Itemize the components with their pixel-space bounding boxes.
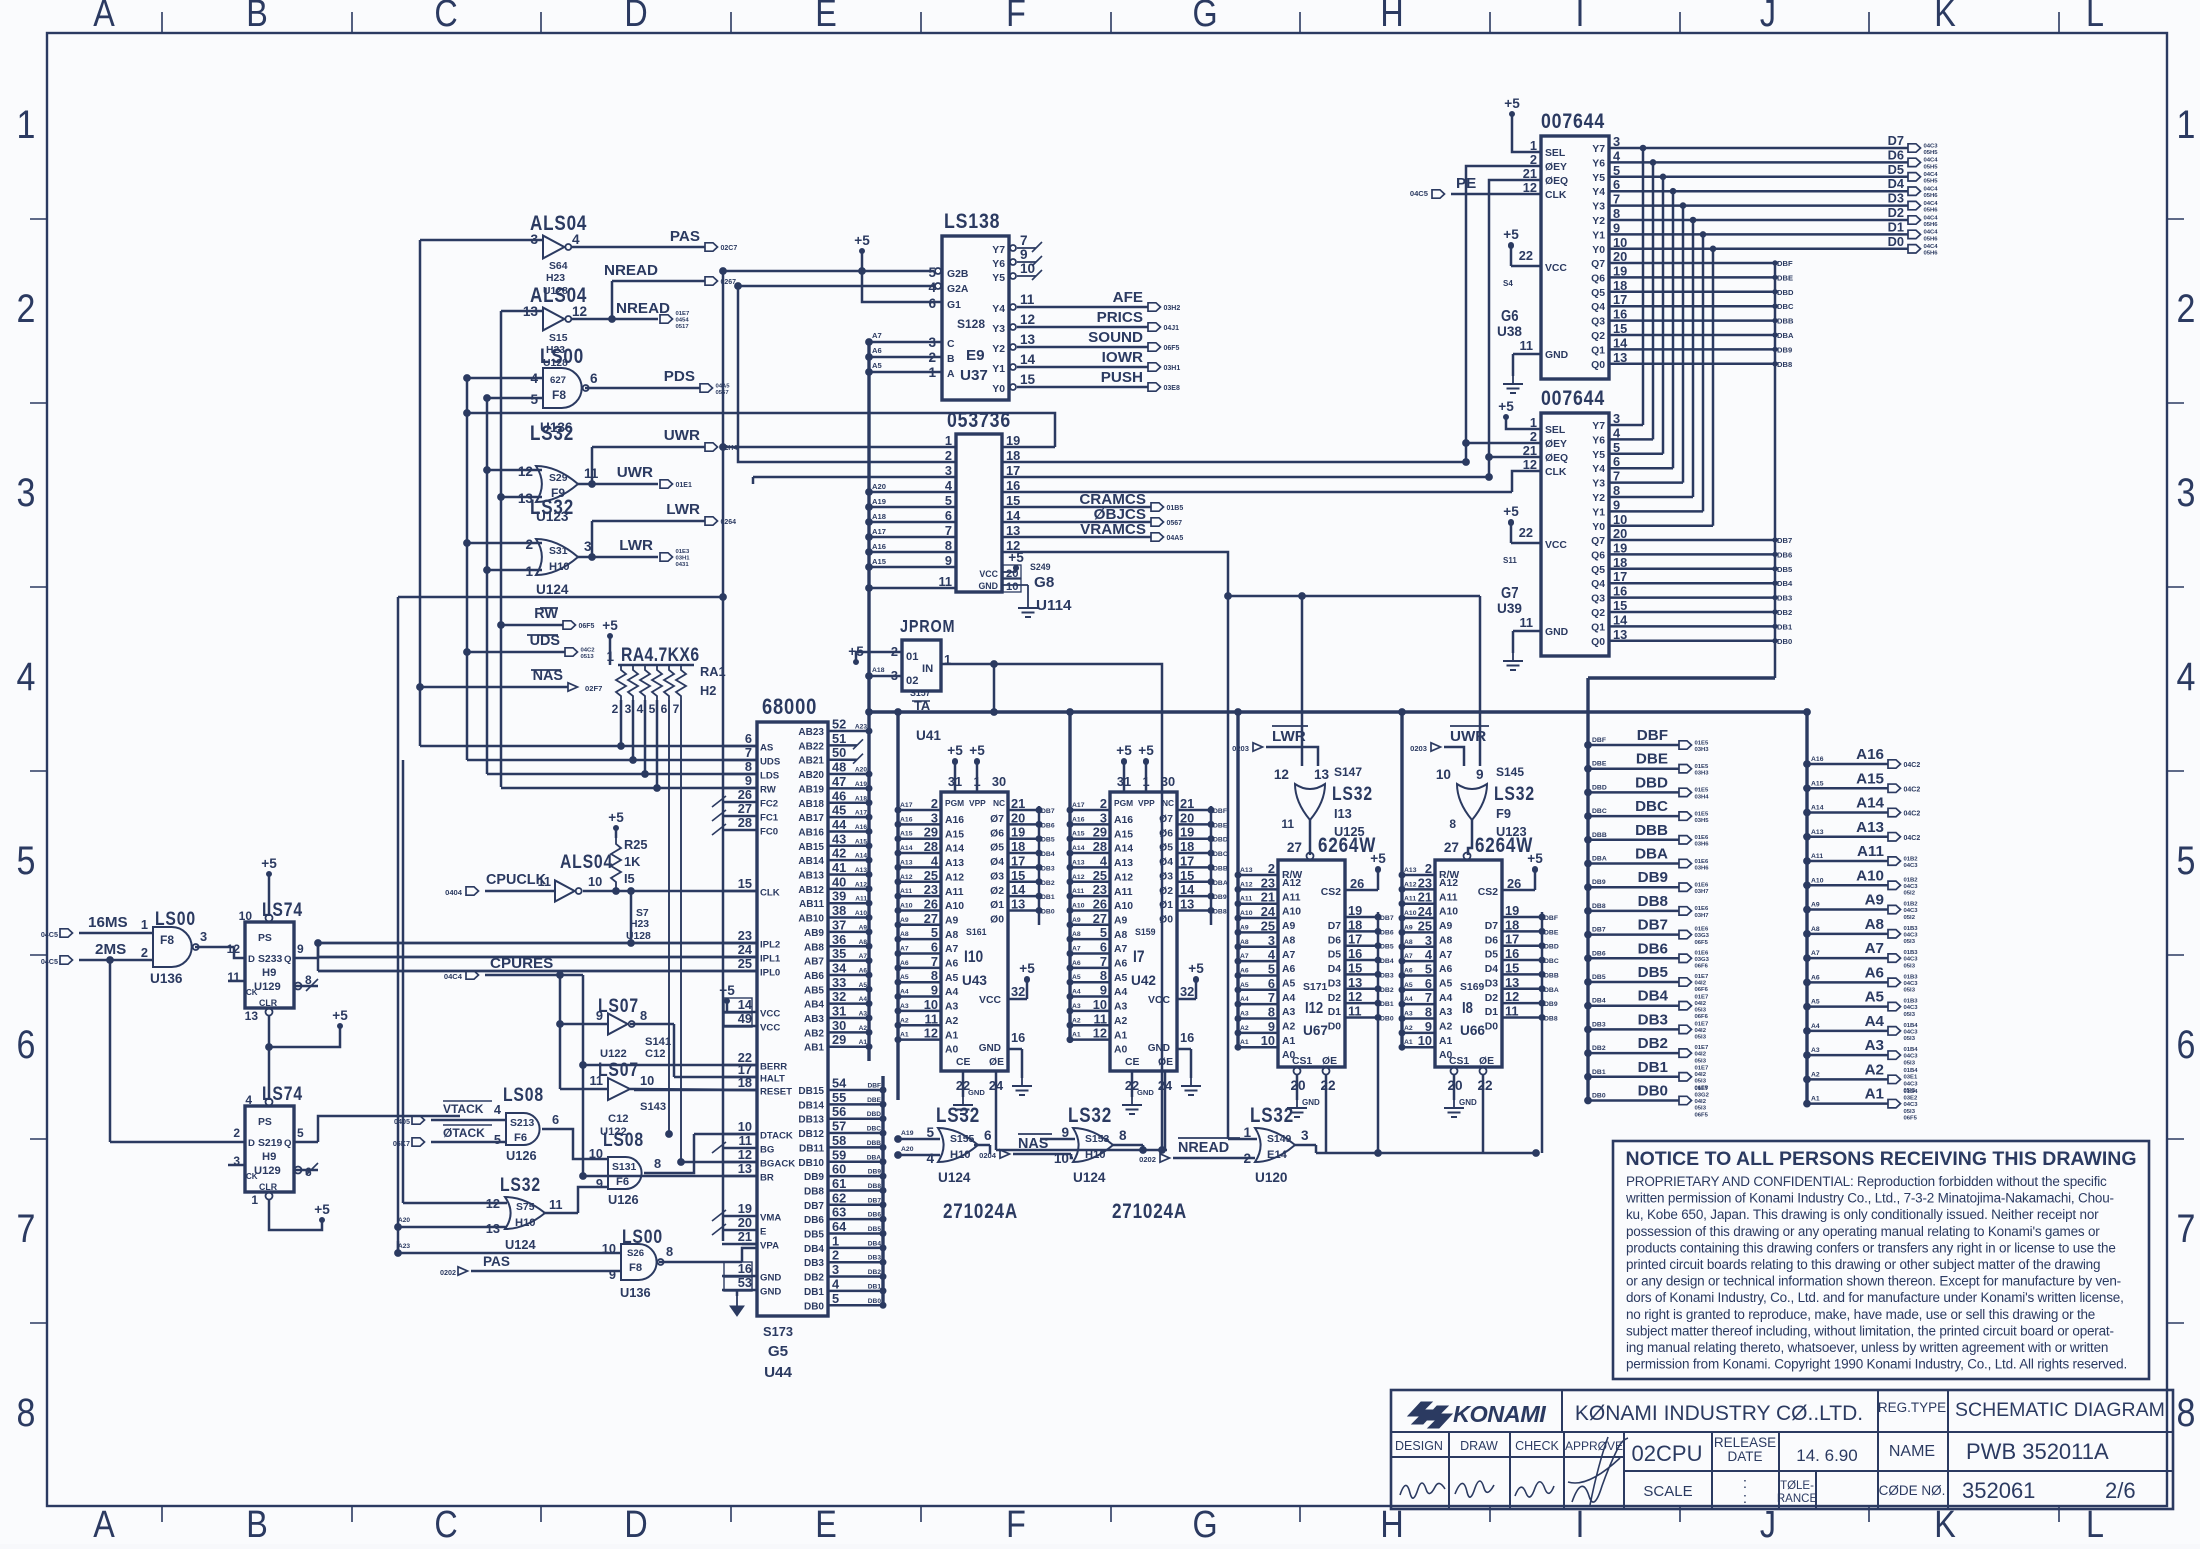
svg-text:23: 23 — [924, 882, 938, 897]
svg-text:H2: H2 — [700, 683, 716, 698]
svg-text:+5: +5 — [947, 743, 963, 758]
svg-text:9: 9 — [1425, 1019, 1432, 1034]
svg-text:04C4: 04C4 — [1924, 158, 1939, 164]
svg-text:CØDE NØ.: CØDE NØ. — [1879, 1483, 1946, 1498]
svg-text:04C2: 04C2 — [1904, 811, 1921, 818]
labels G2B G2A G1 — [947, 269, 969, 311]
label S143 — [640, 1101, 666, 1113]
svg-text:VPP: VPP — [969, 798, 986, 808]
svg-text:A10: A10 — [900, 902, 913, 909]
label CPUCLK — [486, 872, 547, 888]
svg-text:A10: A10 — [1439, 907, 1458, 918]
label VTACK — [443, 1101, 492, 1116]
svg-text:Q3: Q3 — [1591, 317, 1605, 328]
svg-text:A6: A6 — [945, 959, 959, 970]
svg-text:20: 20 — [738, 1215, 752, 1230]
svg-text:8: 8 — [654, 1156, 661, 1171]
svg-text:06F5: 06F5 — [579, 623, 595, 630]
svg-text:DB4: DB4 — [868, 1240, 882, 1247]
flag A2 — [1888, 1068, 1918, 1094]
label A9 — [1865, 892, 1884, 909]
notice body text — [1625, 1174, 2127, 1372]
svg-text:A9: A9 — [1439, 921, 1453, 932]
pins 10/9/8 — [589, 1146, 661, 1191]
ram I12 data trunk — [1377, 912, 1380, 1153]
svg-text:7: 7 — [1425, 990, 1432, 1005]
wire S153 pin9 — [1040, 1138, 1075, 1141]
svg-text:64: 64 — [832, 1219, 847, 1234]
svg-text:Y1: Y1 — [1592, 507, 1605, 518]
svg-text:5: 5 — [649, 702, 656, 716]
wire trunk x420 — [419, 240, 422, 746]
svg-text:A11: A11 — [1114, 887, 1133, 898]
svg-text:GND: GND — [978, 581, 998, 591]
wire x318 seg — [317, 943, 320, 971]
svg-text:D2: D2 — [1485, 993, 1499, 1004]
svg-text:PRICS: PRICS — [1097, 309, 1143, 326]
svg-text:01B5: 01B5 — [1167, 505, 1184, 512]
svg-text:S145: S145 — [1496, 765, 1524, 779]
+5 U43 VPP — [969, 743, 985, 764]
svg-text:5: 5 — [530, 392, 538, 407]
svg-text:A7: A7 — [1114, 944, 1128, 955]
svg-text:RESET: RESET — [760, 1087, 792, 1098]
wire ALS04 S15 input — [501, 310, 543, 313]
svg-text:A12: A12 — [855, 881, 867, 888]
svg-text:S249: S249 — [1030, 562, 1051, 572]
wire trunk x738 to 053736 pin2 — [738, 286, 956, 462]
wire pullup BGACK — [680, 700, 682, 1162]
wire trunk x110 — [109, 960, 112, 1142]
svg-text:F: F — [1006, 0, 1026, 35]
svg-text:Ø2: Ø2 — [990, 886, 1004, 897]
wire OEY riser x1466 — [1466, 166, 1541, 462]
svg-text:05K7: 05K7 — [393, 1139, 410, 1148]
or LS32 S29 shape — [536, 466, 578, 502]
svg-text:01B4: 01B4 — [1904, 1047, 1919, 1053]
flag PE 04C5 — [1410, 189, 1445, 198]
buffer LS07 S143 U122 C12 — [598, 1059, 639, 1081]
label PAS — [670, 228, 700, 245]
flag DB8 — [1679, 906, 1709, 919]
svg-text:3: 3 — [1100, 810, 1107, 825]
svg-text:B: B — [947, 354, 955, 365]
68000 left control pins — [420, 731, 781, 899]
svg-text:6264W: 6264W — [1475, 835, 1533, 858]
svg-text:60: 60 — [832, 1162, 846, 1177]
or LS32 S149 shape — [1255, 1128, 1295, 1162]
svg-text:DB5: DB5 — [804, 1230, 824, 1241]
svg-text:U129: U129 — [254, 981, 281, 993]
and gate LS08 S131 F6 U126 — [603, 1129, 644, 1151]
svg-text:28: 28 — [1093, 839, 1107, 854]
svg-text:7: 7 — [745, 745, 752, 760]
svg-text:I: I — [1576, 0, 1585, 35]
svg-text:IN: IN — [922, 663, 933, 675]
svg-text:LS07: LS07 — [598, 1059, 639, 1081]
svg-text:IPL1: IPL1 — [760, 954, 781, 965]
svg-text:A19: A19 — [872, 497, 886, 506]
svg-text:Ø7: Ø7 — [990, 814, 1004, 825]
svg-text:NC: NC — [1162, 798, 1174, 808]
svg-text:DBF: DBF — [1213, 808, 1227, 815]
tag A15 — [1811, 780, 1824, 787]
svg-text:04C4: 04C4 — [1924, 187, 1939, 193]
svg-text:27: 27 — [1444, 840, 1459, 855]
svg-text:DB8: DB8 — [1638, 893, 1668, 910]
wire G1 from +5 — [862, 253, 942, 302]
svg-text:01E7: 01E7 — [1695, 974, 1709, 980]
label D7 — [1888, 133, 1904, 148]
svg-text:1: 1 — [17, 101, 36, 146]
svg-text:A5: A5 — [1811, 999, 1820, 1006]
+5 RA1 — [602, 618, 618, 639]
svg-text:+5: +5 — [261, 856, 277, 871]
svg-text:A: A — [93, 1504, 115, 1544]
svg-text:A10: A10 — [1856, 867, 1884, 884]
svg-text:38: 38 — [832, 903, 846, 918]
svg-text:S169: S169 — [1460, 982, 1484, 993]
flag NREAD 01E7 — [660, 311, 690, 330]
wire NREAD upper — [612, 280, 705, 283]
svg-text:DB9: DB9 — [1638, 869, 1668, 886]
svg-text:DB14: DB14 — [798, 1100, 824, 1111]
label DBB — [1635, 822, 1668, 839]
wire pullup RW — [656, 700, 659, 788]
svg-text:SEL: SEL — [1545, 425, 1566, 436]
svg-text:Ø3: Ø3 — [990, 871, 1004, 882]
svg-text:L: L — [2086, 0, 2104, 35]
eprom I10 CE OE pins — [956, 1057, 1004, 1150]
svg-text:Y5: Y5 — [1592, 450, 1605, 461]
+5 U66 CS2 — [1527, 851, 1543, 872]
flag A7 — [1888, 950, 1918, 969]
label PWB 352011A — [1966, 1439, 2109, 1464]
svg-text:G8: G8 — [1034, 574, 1054, 591]
svg-text:A4: A4 — [945, 987, 959, 998]
svg-text:A13: A13 — [855, 867, 867, 874]
svg-text:57: 57 — [832, 1119, 846, 1134]
label DBD — [1635, 774, 1668, 791]
053736 right pin numbers — [1006, 433, 1021, 553]
wires Q7-Q0 G7 — [1609, 536, 1793, 646]
svg-text:01B3: 01B3 — [1904, 974, 1919, 980]
svg-text:A2: A2 — [900, 1017, 909, 1024]
wire CK stub — [228, 980, 245, 983]
68000 BERR HALT RESET — [583, 1050, 792, 1098]
svg-text:DBD: DBD — [867, 1111, 882, 1118]
svg-text:DESIGN: DESIGN — [1395, 1439, 1443, 1453]
svg-text:02CPU: 02CPU — [1632, 1441, 1703, 1466]
svg-text:32: 32 — [832, 989, 846, 1004]
eprom I10 VCC GND — [979, 978, 1030, 1079]
svg-text:04A5: 04A5 — [1167, 535, 1184, 542]
svg-text:8: 8 — [931, 968, 938, 983]
svg-text:VRAMCS: VRAMCS — [1080, 521, 1146, 538]
svg-text:04C5: 04C5 — [41, 957, 58, 966]
wire LS138 B from A6 — [869, 356, 942, 359]
label U66 — [1460, 1023, 1485, 1038]
label F9 — [1496, 806, 1511, 821]
svg-text:04C3: 04C3 — [1904, 981, 1919, 987]
svg-text:AB1: AB1 — [804, 1043, 824, 1054]
svg-text:A1: A1 — [945, 1030, 959, 1041]
svg-text:Ø5: Ø5 — [1159, 843, 1173, 854]
label CLR — [259, 1182, 278, 1192]
svg-text:03H4: 03H4 — [1695, 794, 1710, 800]
flag DB0 — [1679, 1086, 1710, 1118]
svg-text:01B2: 01B2 — [1904, 856, 1919, 862]
svg-text:E: E — [815, 1504, 837, 1544]
label S149 E14 — [1267, 1134, 1291, 1161]
wire DBC — [1588, 815, 1679, 818]
label S131 F6 — [612, 1162, 636, 1188]
wire 2MS — [79, 959, 153, 962]
svg-text:Q: Q — [284, 954, 292, 965]
svg-text:Y4: Y4 — [1592, 187, 1605, 198]
wire DB2 — [1588, 1052, 1679, 1055]
svg-text:A14: A14 — [1114, 844, 1133, 855]
svg-text:+5: +5 — [854, 233, 870, 248]
svg-text:D0: D0 — [1328, 1021, 1342, 1032]
svg-text:A2: A2 — [1282, 1022, 1296, 1033]
eprom I7 address ladder — [1067, 796, 1133, 1056]
svg-text:ØEY: ØEY — [1545, 162, 1567, 173]
jumper JPROM S157 U41 — [902, 640, 941, 691]
svg-text:A9: A9 — [1282, 921, 1296, 932]
label U43 — [962, 973, 987, 988]
label U129 — [254, 1165, 281, 1177]
svg-text:01B3: 01B3 — [1904, 950, 1919, 956]
tag A13 — [1811, 829, 1824, 836]
svg-text:1K: 1K — [624, 854, 641, 869]
or S147 shape — [1295, 784, 1325, 820]
svg-text:A7: A7 — [1072, 946, 1081, 953]
label U38 — [1497, 324, 1522, 339]
wire jog — [1315, 1145, 1318, 1153]
label date — [1796, 1446, 1857, 1465]
svg-text:06F5: 06F5 — [1695, 1112, 1709, 1118]
svg-text:2: 2 — [233, 1126, 240, 1140]
label CRAMCS — [1079, 491, 1146, 508]
svg-text:Y2: Y2 — [1592, 216, 1605, 227]
svg-text:52: 52 — [832, 717, 846, 732]
svg-text:DB5: DB5 — [868, 1226, 882, 1233]
wire S31 pin1 — [487, 569, 542, 572]
svg-text:DBA: DBA — [1777, 331, 1794, 340]
label S153 H10 — [1085, 1134, 1109, 1161]
svg-text:04C3: 04C3 — [1904, 908, 1919, 914]
svg-text:ku, Kobe 650, Japan. This draw: ku, Kobe 650, Japan. This drawing is onl… — [1626, 1207, 2099, 1222]
inverter ALS04 S15 triangle — [543, 308, 571, 331]
wire LS138 A from A5 — [869, 371, 942, 374]
svg-text:A0: A0 — [945, 1045, 959, 1056]
svg-text:A3: A3 — [1282, 1007, 1296, 1018]
ram I12 CS1 OE pins — [1290, 1056, 1337, 1153]
svg-text:4: 4 — [637, 702, 644, 716]
svg-text:LS00: LS00 — [540, 346, 584, 369]
wire OEQ riser x1489 — [1489, 180, 1541, 477]
svg-text:05I2: 05I2 — [1904, 891, 1916, 897]
svg-text:PAS: PAS — [670, 228, 700, 245]
svg-text:04J1: 04J1 — [1164, 325, 1180, 332]
wires Q7-Q0 G6 — [1609, 259, 1794, 369]
svg-text:A8: A8 — [1811, 926, 1820, 933]
svg-text:VCC: VCC — [1148, 995, 1170, 1006]
svg-text:4: 4 — [926, 1151, 934, 1166]
svg-text:11: 11 — [1020, 292, 1035, 307]
svg-text:A11: A11 — [1282, 892, 1301, 903]
svg-text:A7: A7 — [872, 331, 882, 340]
tag DB5 — [1592, 974, 1606, 981]
flag VRAMCS 04A5 — [1151, 533, 1183, 542]
wire NREAD to S149 — [1173, 1157, 1255, 1160]
svg-text:AB11: AB11 — [799, 899, 824, 910]
tag DBF — [1592, 737, 1606, 744]
svg-text:DB2: DB2 — [868, 1269, 882, 1276]
svg-text:E: E — [760, 1227, 767, 1238]
svg-text:A15: A15 — [872, 557, 887, 566]
svg-text:Q7: Q7 — [1591, 259, 1605, 270]
svg-text:DBC: DBC — [1592, 808, 1607, 815]
svg-text:AS: AS — [760, 743, 774, 754]
ram I12 — [1278, 860, 1345, 1067]
wire A14 — [1807, 811, 1888, 814]
wires Y bus verticals G6-G7 — [1609, 145, 1716, 526]
label 007644 G7 — [1541, 386, 1605, 410]
svg-text:053736: 053736 — [947, 408, 1011, 432]
svg-text:G: G — [1192, 1504, 1217, 1544]
wire S75 pin13 — [398, 1226, 507, 1229]
053736 left A-bus wires — [866, 482, 956, 591]
svg-text:2: 2 — [612, 702, 619, 716]
wire trunk x723 upper — [722, 271, 725, 597]
svg-text:DB7: DB7 — [804, 1201, 824, 1212]
svg-text:ØEY: ØEY — [1545, 439, 1567, 450]
svg-text:A15: A15 — [855, 838, 867, 845]
label UDS overline — [527, 633, 560, 649]
svg-text:SEL: SEL — [1545, 148, 1566, 159]
svg-text:S219: S219 — [258, 1138, 282, 1149]
svg-text:LS32: LS32 — [1332, 783, 1373, 805]
svg-text:DB15: DB15 — [798, 1086, 824, 1097]
svg-text:Y6: Y6 — [992, 259, 1005, 270]
flag DB7 — [1679, 927, 1710, 946]
svg-text:DB3: DB3 — [1380, 972, 1394, 979]
svg-text:A10: A10 — [945, 901, 964, 912]
label LWR upper — [666, 501, 700, 518]
svg-text:A2: A2 — [1114, 1016, 1128, 1027]
svg-text:A6: A6 — [1240, 967, 1249, 974]
svg-text:Y1: Y1 — [992, 364, 1005, 375]
pin 11 — [1281, 817, 1294, 831]
svg-text:7: 7 — [1100, 954, 1107, 969]
svg-text:12: 12 — [924, 1026, 938, 1041]
svg-text:DTACK: DTACK — [760, 1131, 793, 1142]
inverter ALS04 S7 U128 CPUCLK — [560, 851, 613, 873]
svg-text:05H5: 05H5 — [1924, 150, 1939, 156]
svg-text:5: 5 — [1268, 961, 1275, 976]
svg-text:DB10: DB10 — [798, 1158, 824, 1169]
label DB7 — [1638, 917, 1668, 934]
resistor elements RA1 — [612, 664, 726, 716]
+5 053736 VCC — [1008, 550, 1024, 571]
svg-text:12: 12 — [227, 942, 241, 956]
svg-text:0567: 0567 — [1167, 520, 1183, 527]
svg-text:04I2: 04I2 — [1695, 1099, 1707, 1105]
svg-text:62: 62 — [832, 1190, 846, 1205]
flag D0 — [1908, 244, 1938, 257]
svg-text:03G3: 03G3 — [1695, 933, 1710, 939]
wire S29 pin13 — [501, 496, 542, 499]
svg-text:D6: D6 — [1328, 935, 1342, 946]
svg-text:G7: G7 — [1501, 585, 1519, 602]
svg-text:49: 49 — [738, 1011, 752, 1026]
ground U67 CS1 — [1287, 1100, 1307, 1117]
label S249 — [1030, 562, 1051, 572]
svg-text:U124: U124 — [505, 1237, 536, 1252]
label CLR — [259, 998, 278, 1008]
+5 U42 PGM — [1116, 743, 1132, 764]
svg-text:A12: A12 — [900, 874, 913, 881]
label 02CPU — [1632, 1441, 1703, 1466]
svg-text:A20: A20 — [855, 767, 867, 774]
svg-text:8: 8 — [1449, 817, 1456, 831]
svg-text:10: 10 — [588, 874, 602, 889]
svg-text:2: 2 — [141, 945, 148, 960]
svg-text:A1: A1 — [1114, 1030, 1128, 1041]
flag DBE — [1679, 764, 1709, 777]
svg-text:10: 10 — [1020, 261, 1035, 276]
wire IOWR — [1017, 366, 1148, 369]
label DB8 — [1638, 893, 1668, 910]
label DB9 — [1638, 869, 1668, 886]
svg-text:G: G — [1192, 0, 1217, 35]
svg-text:D4: D4 — [1328, 964, 1342, 975]
label 007644 G6 — [1541, 109, 1605, 133]
svg-text:0204: 0204 — [979, 1151, 997, 1160]
or LS32 S153 shape — [1073, 1128, 1113, 1162]
svg-text:RA1: RA1 — [700, 664, 726, 679]
svg-text:05I3: 05I3 — [1695, 1106, 1707, 1112]
wire UWR lower — [592, 483, 658, 486]
svg-text:AB12: AB12 — [798, 885, 824, 896]
svg-text:A16: A16 — [945, 815, 964, 826]
svg-text:10: 10 — [1418, 1033, 1432, 1048]
label A18 — [872, 667, 885, 674]
+5 G7 VCC — [1503, 504, 1519, 525]
svg-text:DB5: DB5 — [1777, 565, 1793, 574]
svg-text:A8: A8 — [1240, 939, 1249, 946]
label A2 — [1865, 1061, 1884, 1078]
+5 above LS138 G1 — [854, 233, 870, 254]
nand S26 shape — [621, 1244, 664, 1280]
label U124 — [505, 1237, 536, 1252]
label CK — [246, 988, 258, 997]
wire S75 pin12 — [403, 1202, 507, 1205]
svg-text:printed circuit boards relatin: printed circuit boards relating to this … — [1626, 1257, 2100, 1272]
svg-text:S173: S173 — [763, 1324, 793, 1339]
wire S149 out — [1295, 1144, 1316, 1147]
svg-text:dors of Konami Industry, Co.,: dors of Konami Industry, Co., Ltd. and f… — [1626, 1290, 2124, 1305]
svg-text:Y6: Y6 — [1592, 158, 1605, 169]
svg-text:D5: D5 — [1328, 950, 1342, 961]
svg-text:04I2: 04I2 — [1695, 981, 1707, 987]
svg-text:A17: A17 — [900, 802, 913, 809]
label A6 — [1865, 964, 1884, 981]
pins 11/10 — [589, 1073, 654, 1088]
+5 U43 PGM — [947, 743, 963, 764]
